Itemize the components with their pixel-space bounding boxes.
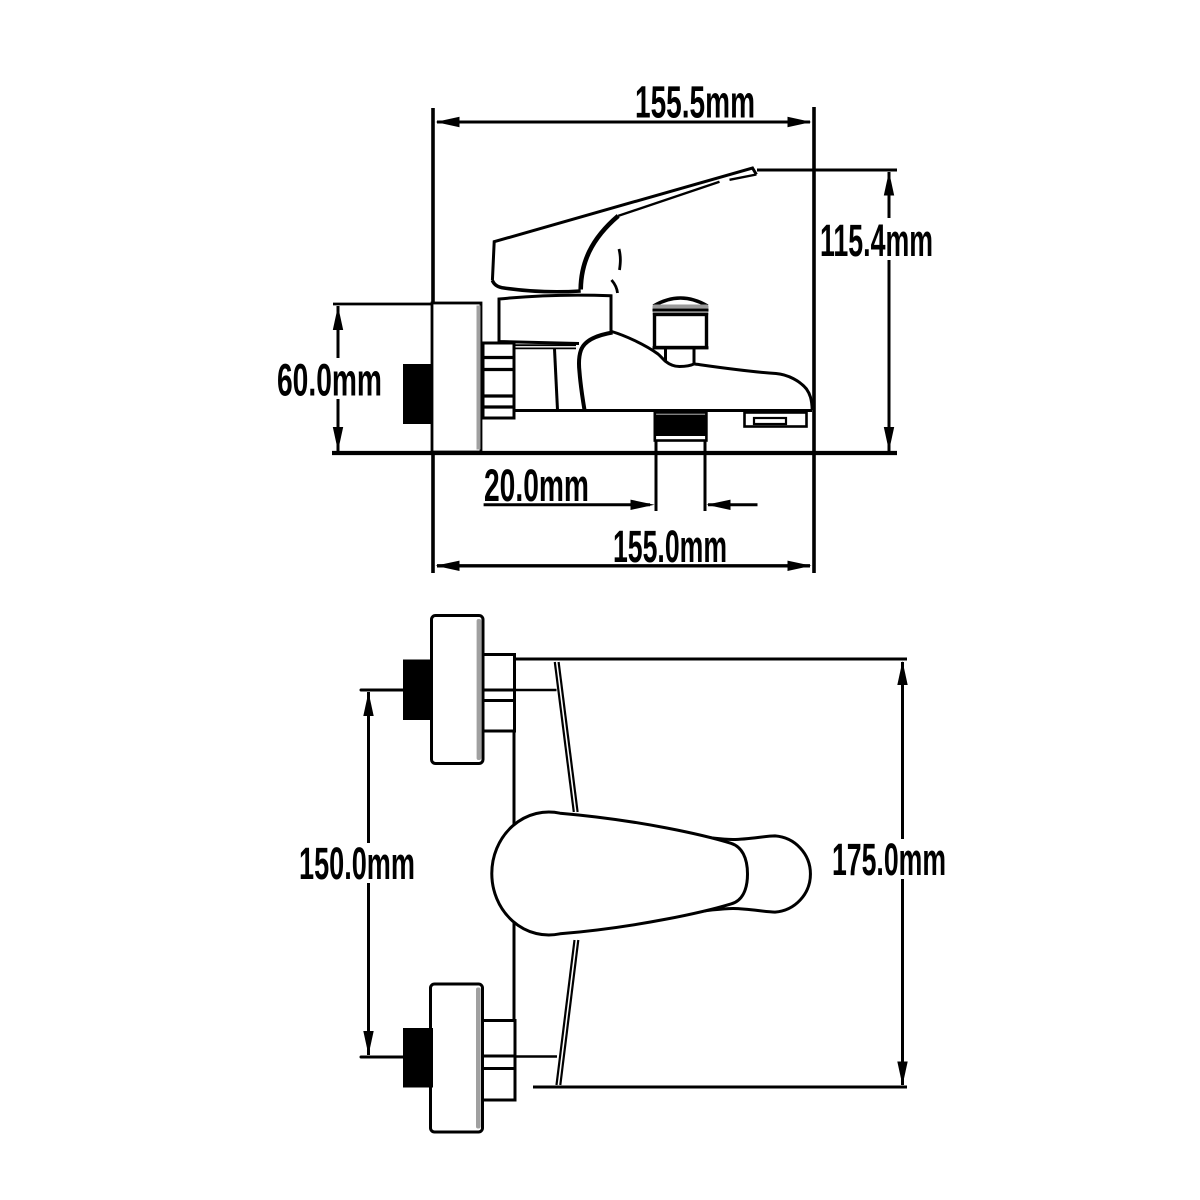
diverter knob body [655, 315, 707, 348]
dimension 155.0mm line [437, 564, 810, 567]
upper mount nut [483, 655, 515, 732]
spout left S-curve [579, 333, 613, 411]
label 175.0mm [830, 839, 948, 879]
extension line right [812, 107, 816, 573]
wall plate [432, 303, 481, 452]
wall plate top extension line [333, 303, 481, 306]
dimension 155.5mm line [437, 121, 810, 124]
dimension 20.0mm line right [708, 503, 758, 506]
spout outlet frame [655, 413, 707, 441]
svg-text:155.5mm: 155.5mm [635, 77, 755, 128]
mounting nut (side view) [483, 343, 514, 418]
handle front curve (thick) [581, 216, 619, 290]
diverter stem left [664, 349, 667, 362]
handle bottom edge [492, 281, 580, 292]
upper nut grooves [483, 689, 515, 692]
handle dome corner piece [612, 280, 618, 293]
body bottom edge [533, 1086, 907, 1089]
dimension 150.0mm line [367, 692, 370, 1055]
valve body mid line [555, 349, 558, 410]
arrow down 115.4 [884, 427, 894, 451]
dimension 175.0mm line [901, 662, 904, 1085]
arrow right 155.0 [788, 561, 812, 571]
handle teardrop (front view) [492, 812, 748, 935]
aerator inner [754, 418, 786, 424]
svg-text:175.0mm: 175.0mm [832, 834, 946, 885]
arrow right 155.5 [788, 117, 812, 127]
lower inlet block (black) [403, 1028, 433, 1088]
arrow up 175.0 [897, 661, 907, 685]
lower mount nut [483, 1021, 516, 1101]
floor reference line [332, 451, 897, 455]
diverter knob black ring [653, 309, 709, 312]
handle top extension line [757, 169, 897, 172]
arrow left 20.0 [707, 500, 731, 510]
body left edge [513, 659, 516, 1020]
dimension 20.0mm line left [484, 503, 650, 506]
upper inlet block (black) [403, 660, 433, 721]
seam line upper mount [516, 689, 557, 692]
body slope lower (double line) [557, 940, 575, 1085]
svg-text:20.0mm: 20.0mm [484, 460, 589, 511]
handle dome right edge [619, 249, 620, 270]
inlet block (black) [403, 364, 433, 424]
svg-text:115.4mm: 115.4mm [820, 215, 933, 266]
handle lever pill (front view) [680, 834, 810, 914]
upper flange shadow [477, 619, 482, 760]
cartridge housing [499, 295, 611, 343]
dimension 150.0mm extension bottom [361, 1056, 403, 1059]
lower nut grooves [483, 1055, 516, 1058]
arrow up 150.0 [363, 692, 373, 716]
diverter stem right [693, 349, 696, 365]
valve body bottom line [514, 409, 812, 412]
arrow down 60.0 [333, 427, 343, 451]
arrow left 155.5 [436, 117, 460, 127]
arrow up 60.0 [333, 306, 343, 330]
body top edge [514, 658, 907, 661]
diverter knob flange bottom [653, 346, 709, 349]
outlet extension line right [704, 441, 707, 511]
extension line left (wall line) [431, 108, 435, 573]
svg-text:150.0mm: 150.0mm [299, 838, 415, 889]
lower flange shadow [476, 988, 481, 1129]
label 150.0mm [297, 843, 418, 883]
nut groove lines [483, 356, 514, 359]
arrow right 20.0 [631, 500, 655, 510]
handle outline (left edge, top edge, tip) [492, 168, 756, 281]
wall plate shadow edge [477, 306, 481, 450]
diverter knob gray band 2 [653, 311, 709, 315]
arrow down 175.0 [897, 1062, 907, 1086]
diverter knob dome [654, 298, 708, 306]
label 60.0mm [276, 358, 384, 399]
arrow left 155.0 [436, 561, 460, 571]
body slope upper (double line) [555, 662, 574, 812]
dimension 60.0mm line [337, 306, 340, 451]
diverter knob gray band 1 [653, 305, 709, 310]
outlet extension line left [655, 441, 658, 511]
arrow up 115.4 [884, 172, 894, 196]
arrow down 150.0 [363, 1031, 373, 1055]
aerator frame [745, 413, 807, 427]
handle ridge line segment B [618, 182, 719, 216]
dimension 115.4mm line [888, 172, 891, 451]
handle ridge line segment A [730, 175, 757, 180]
spout top profile [612, 332, 813, 411]
svg-text:60.0mm: 60.0mm [277, 355, 382, 406]
spout outlet black band [655, 415, 707, 437]
dimension 150.0mm extension top [361, 689, 403, 692]
upper mount flange [432, 616, 484, 764]
valve body top seam (double line) [515, 344, 577, 346]
label 115.4mm [818, 218, 934, 260]
lower mount flange [431, 984, 483, 1132]
seam line lower mount [516, 1055, 558, 1058]
svg-text:155.0mm: 155.0mm [613, 521, 727, 572]
